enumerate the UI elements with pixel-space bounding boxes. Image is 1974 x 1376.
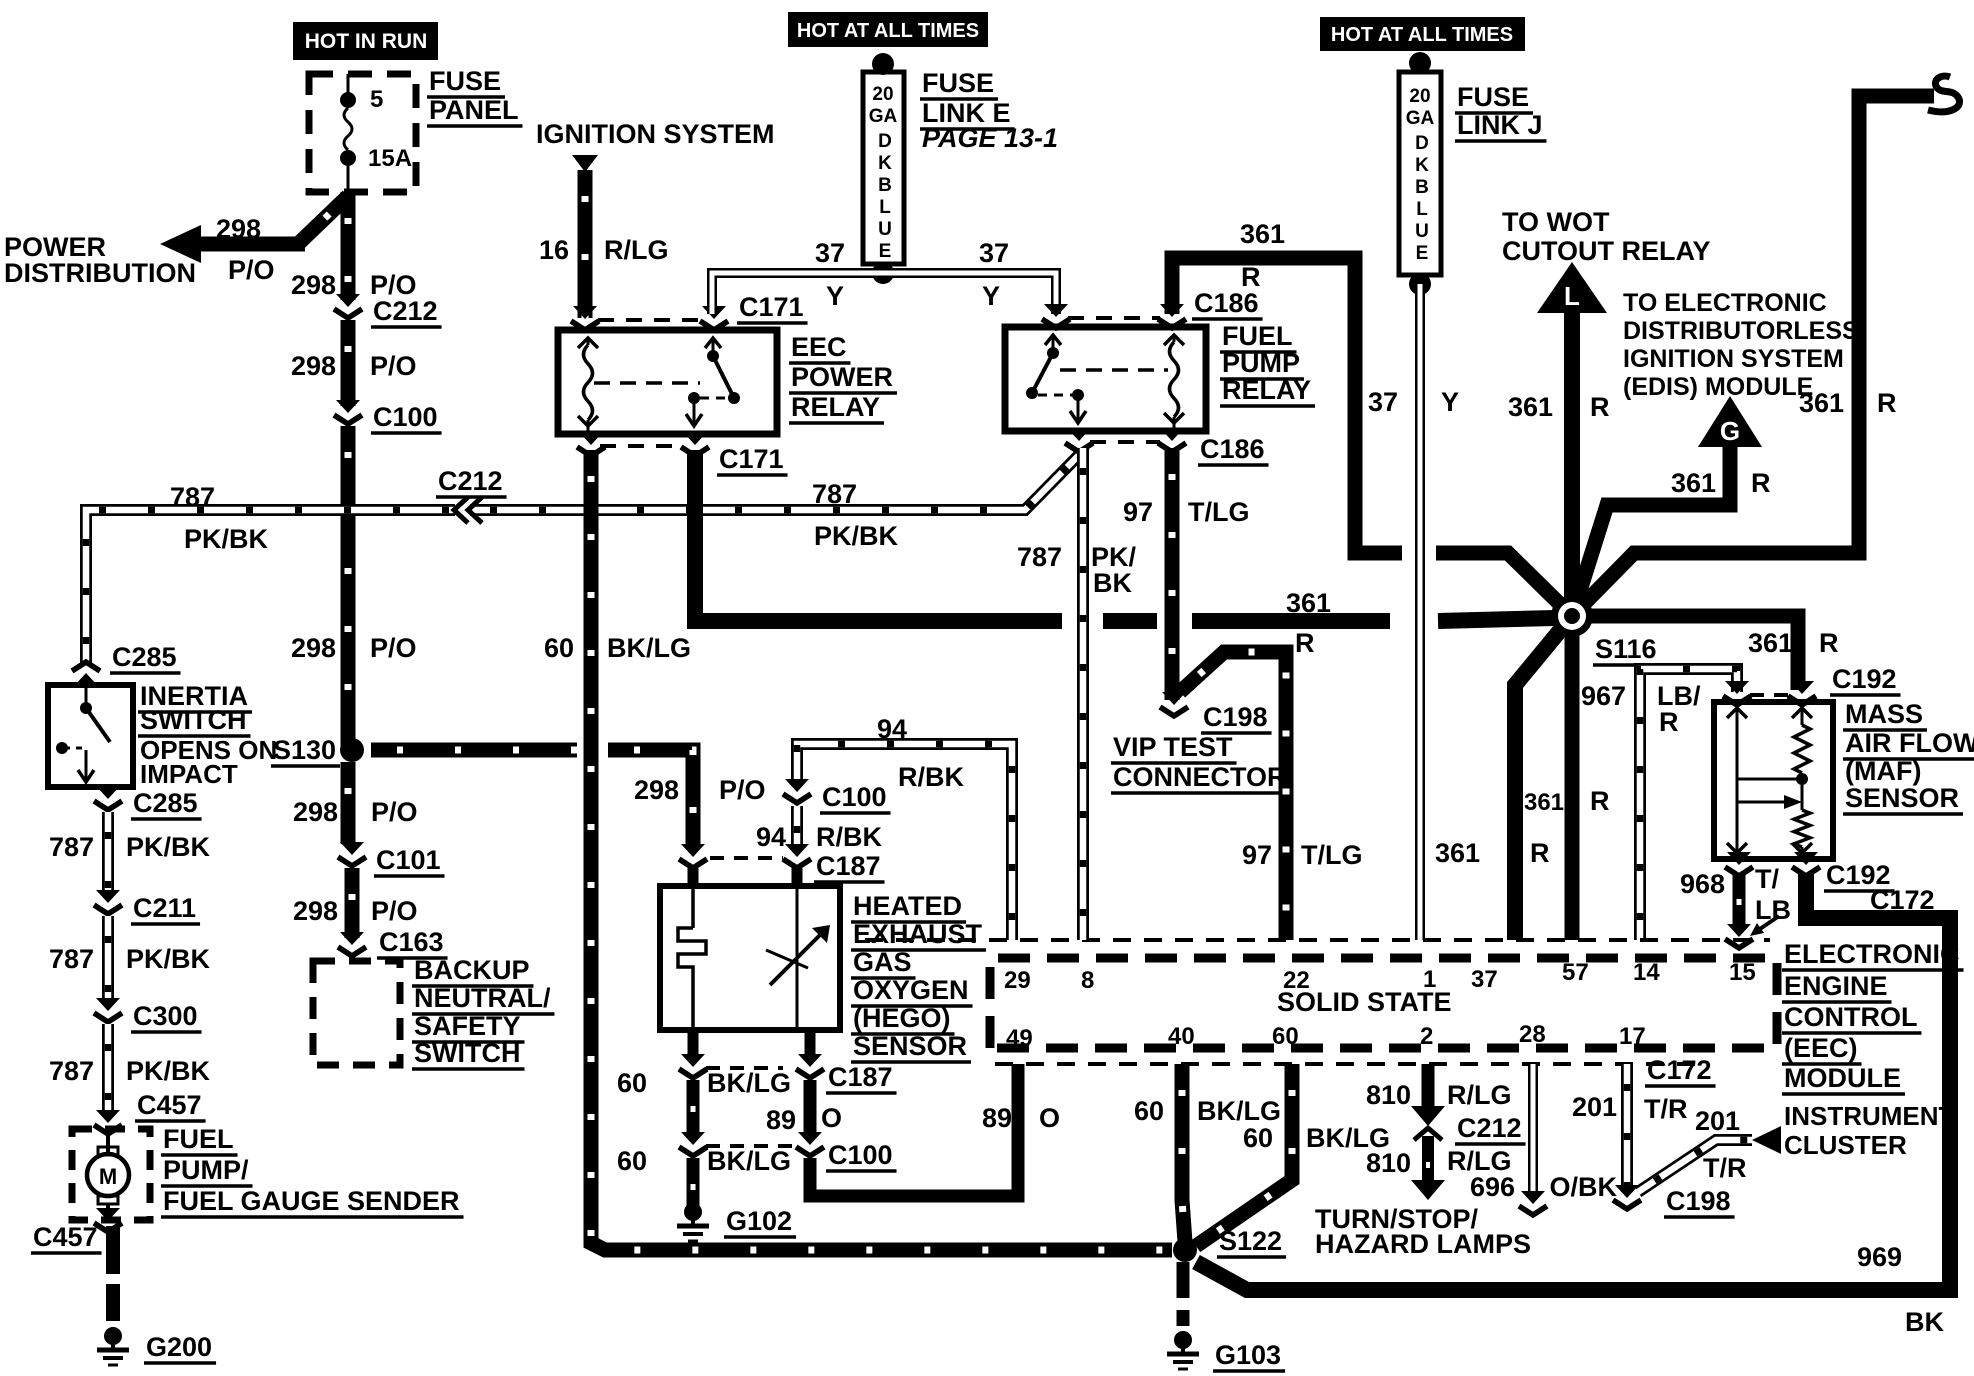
MAF sensor internals: [1727, 708, 1747, 718]
svg-text:P/O: P/O: [371, 797, 418, 827]
ignition system feed triangle: [572, 155, 598, 172]
svg-text:2: 2: [1420, 1023, 1433, 1050]
svg-text:29: 29: [1004, 967, 1031, 994]
fuse link J capsule 20 GA DK BLUE: [1399, 52, 1441, 295]
svg-text:HOT IN RUN: HOT IN RUN: [305, 30, 428, 53]
wire 16 R/LG: [578, 170, 593, 318]
svg-text:C186: C186: [1194, 288, 1259, 318]
svg-text:ELECTRONIC: ELECTRONIC: [1784, 939, 1960, 969]
wire 810 R/LG to turn stop hazard lamps: [1422, 1136, 1434, 1180]
svg-text:P/O: P/O: [719, 775, 766, 805]
svg-text:SWITCH: SWITCH: [414, 1038, 520, 1068]
inertia switch box: [48, 685, 133, 787]
svg-text:R: R: [1819, 628, 1839, 658]
svg-text:AIR FLOW: AIR FLOW: [1845, 728, 1974, 758]
svg-text:FUSE: FUSE: [1457, 82, 1529, 112]
svg-text:60: 60: [1243, 1123, 1273, 1153]
wire 298 P/O S130 to HEGO heater: [371, 743, 577, 758]
svg-text:Y: Y: [826, 281, 844, 311]
svg-text:C100: C100: [373, 402, 438, 432]
svg-text:IGNITION SYSTEM: IGNITION SYSTEM: [536, 119, 775, 149]
svg-text:CLUSTER: CLUSTER: [1784, 1130, 1907, 1160]
connector C101: [338, 842, 366, 866]
svg-text:C192: C192: [1832, 664, 1897, 694]
connector C100 left: [679, 1132, 707, 1156]
svg-text:Y: Y: [982, 281, 1000, 311]
connector C285 top: [72, 662, 100, 686]
svg-text:NEUTRAL/: NEUTRAL/: [414, 983, 551, 1013]
svg-text:CONNECTOR: CONNECTOR: [1113, 762, 1287, 792]
label 298 P/O: [291, 270, 336, 300]
svg-text:DISTRIBUTORLESS: DISTRIBUTORLESS: [1623, 317, 1859, 345]
svg-text:97: 97: [1242, 840, 1272, 870]
svg-text:P/O: P/O: [370, 633, 417, 663]
fuel pump relay internal dashed line: [1060, 368, 1168, 372]
svg-text:5: 5: [370, 86, 383, 113]
svg-text:P/O: P/O: [371, 896, 418, 926]
svg-text:MODULE: MODULE: [1784, 1063, 1901, 1093]
svg-text:T/R: T/R: [1644, 1094, 1688, 1124]
svg-text:CONTROL: CONTROL: [1784, 1002, 1917, 1032]
svg-text:GAS: GAS: [853, 947, 912, 977]
fuel pump motor M: [87, 1129, 129, 1218]
svg-text:R: R: [1241, 262, 1261, 292]
svg-text:361: 361: [1671, 468, 1716, 498]
connector C187 on 298 wire: [679, 844, 707, 868]
connector C163: [338, 932, 366, 956]
wire 298 P/O C101 to C163: [345, 868, 360, 938]
svg-text:SENSOR: SENSOR: [853, 1031, 967, 1061]
svg-text:20: 20: [1409, 86, 1430, 107]
ground G102: [677, 1203, 709, 1241]
svg-text:C212: C212: [1457, 1113, 1522, 1143]
wire 967 LB/R EEC pin 14 to MAF: [1640, 669, 1737, 940]
svg-text:298: 298: [293, 896, 338, 926]
svg-text:37: 37: [1471, 966, 1498, 993]
svg-text:C211: C211: [133, 893, 196, 923]
svg-text:ENGINE: ENGINE: [1784, 971, 1888, 1001]
svg-text:SAFETY: SAFETY: [414, 1011, 521, 1041]
svg-text:U: U: [1415, 221, 1429, 242]
svg-text:POWER: POWER: [791, 362, 893, 392]
wire 298 P/O to power distribution: [298, 196, 348, 244]
svg-text:EXHAUST: EXHAUST: [853, 919, 983, 949]
svg-text:C212: C212: [438, 466, 503, 496]
svg-text:C285: C285: [133, 788, 198, 818]
wire 969 BK MAF to S122: [1196, 873, 1950, 1290]
svg-text:R: R: [1295, 628, 1315, 658]
wire 361 R star to pin 37: [1515, 616, 1572, 940]
svg-text:T/: T/: [1755, 864, 1779, 894]
svg-text:P/O: P/O: [228, 255, 275, 285]
wire 361 R to WOT cutout relay: [1564, 313, 1580, 610]
wire 37 Y fuse link J to EEC pin 1: [1415, 284, 1425, 940]
svg-text:L: L: [879, 197, 891, 218]
wire 97 T/LG branch to EEC pin 22: [1180, 652, 1286, 940]
svg-text:VIP TEST: VIP TEST: [1113, 732, 1233, 762]
svg-text:PUMP/: PUMP/: [163, 1155, 249, 1185]
svg-text:787: 787: [170, 482, 215, 512]
svg-text:361: 361: [1435, 838, 1480, 868]
svg-text:T/LG: T/LG: [1188, 497, 1250, 527]
svg-text:HEATED: HEATED: [853, 891, 962, 921]
svg-text:PANEL: PANEL: [429, 95, 519, 125]
backup neutral safety switch dashed box: [313, 961, 400, 1065]
svg-text:C163: C163: [379, 927, 444, 957]
header label HOT IN RUN: [293, 22, 438, 60]
label TO WOT CUTOUT RELAY: [1502, 207, 1610, 237]
svg-text:49: 49: [1006, 1025, 1033, 1052]
svg-text:L: L: [1564, 281, 1580, 311]
svg-text:201: 201: [1695, 1106, 1740, 1136]
svg-text:1: 1: [1423, 966, 1436, 993]
svg-text:298: 298: [293, 797, 338, 827]
svg-text:C198: C198: [1203, 702, 1268, 732]
wire BK S122 to G103: [1177, 1262, 1190, 1326]
HEGO sensor box: [660, 886, 840, 1030]
connector C457: [94, 1110, 122, 1134]
wire 361 R star to MAF sensor: [1572, 616, 1798, 690]
svg-text:28: 28: [1519, 1021, 1546, 1048]
svg-text:IGNITION SYSTEM: IGNITION SYSTEM: [1623, 345, 1844, 373]
svg-text:15: 15: [1729, 959, 1756, 986]
svg-text:BK: BK: [1905, 1307, 1944, 1337]
wire 968 T/LB MAF to EEC pin 15: [1733, 873, 1746, 930]
EDIS module triangle G: [1698, 396, 1762, 447]
EEC power relay coil: [578, 338, 598, 348]
svg-text:57: 57: [1562, 959, 1589, 986]
svg-text:C285: C285: [112, 642, 177, 672]
svg-text:787: 787: [49, 1056, 94, 1086]
label FUSE PANEL: [427, 66, 505, 97]
wire 298 P/O S130 to C101: [341, 762, 356, 844]
label ELECTRONIC ENGINE CONTROL (EEC) MODULE: [1782, 939, 1964, 970]
connector C211: [94, 890, 122, 914]
label SOLID STATE: [1277, 987, 1452, 1017]
svg-text:787: 787: [812, 479, 857, 509]
svg-text:TO ELECTRONIC: TO ELECTRONIC: [1623, 289, 1827, 317]
svg-text:37: 37: [1368, 387, 1398, 417]
label POWER DISTRIBUTION: [4, 232, 106, 262]
wire BK to G200: [106, 1226, 120, 1321]
svg-text:CUTOUT RELAY: CUTOUT RELAY: [1502, 236, 1711, 266]
connector C192 bottom plane: [1725, 852, 1753, 876]
svg-text:R: R: [1530, 838, 1550, 868]
fuel pump relay box: [1005, 327, 1206, 431]
svg-text:361: 361: [1748, 628, 1793, 658]
svg-text:Y: Y: [1441, 387, 1459, 417]
connector C212: [334, 294, 362, 318]
svg-text:BK/LG: BK/LG: [607, 633, 691, 663]
svg-text:C457: C457: [33, 1222, 98, 1252]
svg-text:G103: G103: [1215, 1340, 1281, 1370]
svg-text:810: 810: [1366, 1080, 1411, 1110]
wire 60 BK/LG HEGO to G102: [688, 1030, 699, 1060]
svg-text:C171: C171: [739, 292, 804, 322]
wire 89 O HEGO signal to EEC pin 49: [805, 1030, 816, 1060]
arrow to POWER DISTRIBUTION: [160, 225, 201, 263]
wire 298 P/O C212 to C100: [341, 320, 356, 406]
svg-text:361: 361: [1524, 789, 1564, 816]
svg-text:60: 60: [544, 633, 574, 663]
svg-text:M: M: [99, 1164, 117, 1189]
svg-text:C300: C300: [133, 1001, 198, 1031]
svg-text:787: 787: [49, 832, 94, 862]
fuse rating labels 5 / 15A: [370, 86, 383, 113]
connector C300: [94, 998, 122, 1022]
svg-text:TO WOT: TO WOT: [1502, 207, 1610, 237]
label 298 P/O: [293, 797, 338, 827]
wire 37 Y fuse link E to fuel pump relay: [883, 273, 1056, 314]
svg-text:969: 969: [1857, 1242, 1902, 1272]
label MASS AIR FLOW (MAF) SENSOR: [1843, 699, 1927, 730]
label FUEL PUMP/FUEL GAUGE SENDER: [161, 1124, 237, 1155]
svg-text:PK/BK: PK/BK: [814, 521, 899, 551]
svg-text:696: 696: [1470, 1172, 1515, 1202]
svg-text:967: 967: [1581, 681, 1626, 711]
connector C198 on 97 wire: [1160, 692, 1188, 716]
fuel pump dashed box: [72, 1129, 150, 1220]
label FUEL PUMP RELAY: [1220, 321, 1296, 352]
label INERTIA SWITCH OPENS ON IMPACT: [138, 681, 252, 712]
svg-text:SENSOR: SENSOR: [1845, 783, 1959, 813]
svg-text:C457: C457: [137, 1090, 202, 1120]
svg-text:C100: C100: [828, 1140, 893, 1170]
svg-text:361: 361: [1799, 388, 1844, 418]
svg-text:E: E: [879, 241, 892, 262]
connector C100: [334, 400, 362, 424]
splice S122 node: [1173, 1238, 1197, 1262]
svg-text:R/LG: R/LG: [1447, 1080, 1512, 1110]
svg-text:FUEL: FUEL: [163, 1124, 234, 1154]
label FUSE LINK E PAGE 13-1: [920, 68, 998, 99]
connector C187 bottom plane: [706, 1066, 783, 1070]
svg-text:787: 787: [1017, 542, 1062, 572]
svg-text:BK/LG: BK/LG: [1197, 1096, 1281, 1126]
svg-text:B: B: [878, 175, 892, 196]
wire 201 O/BK EEC pin 28 to VIP test connector: [1528, 1064, 1538, 1198]
svg-text:8: 8: [1081, 967, 1094, 994]
wire 787 PK/BK to C300: [102, 916, 114, 1000]
svg-text:S130: S130: [273, 735, 336, 765]
connector C192 plane: [1750, 693, 1790, 697]
fuel pump relay coil: [1164, 335, 1184, 345]
svg-text:60: 60: [1134, 1096, 1164, 1126]
svg-text:60: 60: [617, 1068, 647, 1098]
EEC connector plane bottom: [995, 1062, 1700, 1066]
svg-text:22: 22: [1283, 967, 1310, 994]
svg-text:OXYGEN: OXYGEN: [853, 975, 969, 1005]
EEC module dashed border: [990, 958, 1777, 1048]
svg-text:EEC: EEC: [791, 332, 847, 362]
svg-text:(HEGO): (HEGO): [853, 1003, 951, 1033]
svg-text:(EEC): (EEC): [1784, 1033, 1858, 1063]
svg-text:PUMP: PUMP: [1222, 348, 1300, 378]
svg-text:T/R: T/R: [1703, 1153, 1747, 1183]
connector C187 on 94 wire: [783, 844, 811, 868]
svg-text:FUEL: FUEL: [1222, 321, 1293, 351]
svg-text:C100: C100: [822, 782, 887, 812]
svg-text:FUSE: FUSE: [429, 66, 501, 96]
wire 361 R top right feed: [1572, 96, 1934, 616]
svg-text:R: R: [1751, 468, 1771, 498]
wire 97 T/LG fuel pump relay to VIP test connector: [1165, 448, 1180, 700]
fuse F5 15A symbol: [340, 74, 356, 196]
svg-text:C212: C212: [373, 296, 438, 326]
svg-text:C171: C171: [719, 444, 784, 474]
svg-text:20: 20: [872, 84, 893, 105]
svg-text:C198: C198: [1666, 1186, 1731, 1216]
svg-text:R/BK: R/BK: [816, 822, 882, 852]
svg-text:FUSE: FUSE: [922, 68, 994, 98]
connector C171 bottom plane: [600, 444, 680, 448]
svg-text:16: 16: [539, 235, 569, 265]
HEGO sensing element symbol: [796, 886, 799, 1030]
svg-text:R: R: [1659, 707, 1679, 737]
connector C186 bottom plane: [1090, 440, 1160, 444]
EEC connector plane top: [865, 938, 1770, 942]
svg-text:37: 37: [979, 238, 1009, 268]
wire 361 R star to pin 57: [1565, 616, 1580, 940]
wire continuation squiggle S: [1928, 76, 1960, 112]
fuse panel dashed box: [309, 74, 416, 192]
svg-text:BK/LG: BK/LG: [707, 1068, 791, 1098]
fuse link E capsule 20 GA DK BLUE: [863, 53, 904, 284]
svg-text:LINK J: LINK J: [1457, 110, 1543, 140]
EEC pin numbers top: [1004, 967, 1031, 994]
svg-text:O/BK: O/BK: [1550, 1172, 1618, 1202]
ground G200: [97, 1327, 129, 1365]
svg-text:C187: C187: [828, 1062, 893, 1092]
splice S130: [340, 738, 364, 762]
wire 94 R/BK EEC pin 29 to HEGO: [797, 744, 1012, 940]
svg-text:298: 298: [291, 270, 336, 300]
svg-text:RELAY: RELAY: [1222, 375, 1311, 405]
svg-text:37: 37: [815, 238, 845, 268]
svg-text:R/LG: R/LG: [604, 235, 669, 265]
svg-text:B: B: [1415, 177, 1429, 198]
wire 361 R EEC relay to splice S116 horizontal: [695, 450, 1062, 621]
wire T/R EEC pin 17 to C198: [1621, 1064, 1633, 1192]
connector C186 top plane: [1068, 316, 1160, 320]
wire 298 P/O C100 to S130: [341, 426, 356, 750]
svg-text:GA: GA: [1406, 108, 1435, 129]
label EEC POWER RELAY: [789, 332, 851, 363]
svg-text:97: 97: [1123, 497, 1153, 527]
svg-text:R: R: [1590, 392, 1610, 422]
connector C100 on 94 wire: [783, 779, 811, 803]
svg-text:PAGE 13-1: PAGE 13-1: [922, 123, 1058, 153]
wire 787 PK/BK fuel pump relay to EEC pin 8: [1077, 448, 1089, 940]
svg-text:787: 787: [49, 944, 94, 974]
svg-text:298: 298: [216, 214, 261, 244]
wire 60 BK/LG EEC pin 60 to S122: [1196, 1064, 1292, 1246]
wire 361 R EDIS to splice S116: [1572, 447, 1730, 616]
svg-text:361: 361: [1508, 392, 1553, 422]
svg-text:GA: GA: [869, 106, 898, 127]
svg-text:INSTRUMENT: INSTRUMENT: [1784, 1101, 1955, 1131]
svg-text:C172: C172: [1647, 1055, 1712, 1085]
svg-text:HOT AT ALL TIMES: HOT AT ALL TIMES: [1331, 24, 1513, 46]
wire 810 R/LG EEC pin 2 to C212: [1422, 1064, 1435, 1106]
wire 787 PK/BK to C211: [102, 812, 114, 892]
svg-text:O: O: [1039, 1103, 1060, 1133]
wire 37 Y fuse link E to EEC power relay: [712, 273, 883, 314]
svg-text:R: R: [1877, 388, 1897, 418]
wire 201 T/R to instrument cluster: [1638, 1140, 1752, 1192]
svg-text:60: 60: [617, 1146, 647, 1176]
svg-text:K: K: [878, 153, 892, 174]
label 298 P/O: [291, 633, 336, 663]
svg-text:201: 201: [1572, 1092, 1617, 1122]
svg-text:14: 14: [1633, 959, 1660, 986]
svg-text:U: U: [878, 219, 892, 240]
connector C457 bottom: [94, 1208, 122, 1232]
svg-text:968: 968: [1680, 869, 1725, 899]
header label HOT AT ALL TIMES right: [1320, 17, 1525, 51]
svg-text:361: 361: [1240, 219, 1285, 249]
ground G103: [1167, 1331, 1199, 1369]
svg-text:298: 298: [634, 775, 679, 805]
HEGO heater element symbol: [678, 886, 706, 1030]
svg-text:60: 60: [1272, 1023, 1299, 1050]
svg-text:G: G: [1720, 416, 1740, 446]
wire 298 P/O fuse panel to C212: [341, 192, 356, 300]
label 787 PK/BK left: [170, 482, 215, 512]
svg-text:810: 810: [1366, 1148, 1411, 1178]
svg-text:RELAY: RELAY: [791, 392, 880, 422]
svg-text:298: 298: [291, 351, 336, 381]
fuel pump relay switch: [1026, 335, 1086, 423]
label INSTRUMENT CLUSTER: [1784, 1101, 1955, 1131]
svg-text:E: E: [1416, 243, 1429, 264]
svg-text:D: D: [1415, 133, 1429, 154]
svg-text:DISTRIBUTION: DISTRIBUTION: [4, 258, 196, 288]
inline connector C212 on 787 wire: [454, 497, 482, 523]
svg-text:L: L: [1416, 199, 1428, 220]
label VIP TEST CONNECTOR: [1111, 732, 1237, 763]
instrument cluster triangle: [1752, 1126, 1781, 1154]
label HEATED EXHAUST GAS OXYGEN (HEGO) SENSOR: [851, 891, 966, 922]
svg-text:(EDIS) MODULE: (EDIS) MODULE: [1623, 373, 1813, 401]
wire 60 BK/LG EEC pin 40 to S122: [1182, 1064, 1185, 1242]
label TURN/STOP/HAZARD LAMPS: [1315, 1204, 1479, 1234]
svg-text:C187: C187: [816, 851, 881, 881]
svg-text:40: 40: [1168, 1023, 1195, 1050]
label 787 PK/BK middle: [812, 479, 857, 509]
svg-text:G102: G102: [726, 1206, 792, 1236]
svg-text:PK/BK: PK/BK: [184, 524, 269, 554]
svg-text:O: O: [821, 1103, 842, 1133]
splice S116 node: [1551, 595, 1593, 637]
op EEC power relay box: [558, 330, 777, 434]
label IGNITION SYSTEM: [536, 119, 775, 149]
EEC pin numbers bottom: [1006, 1025, 1033, 1052]
svg-text:PK/BK: PK/BK: [126, 1056, 211, 1086]
svg-text:R: R: [1590, 786, 1610, 816]
svg-text:94: 94: [877, 714, 907, 744]
svg-text:BK/LG: BK/LG: [707, 1146, 791, 1176]
svg-text:BK: BK: [1093, 568, 1132, 598]
label TO ELECTRONIC DISTRIBUTORLESS IGNITION SYSTEM (EDIS) MODULE: [1623, 289, 1827, 317]
svg-text:G200: G200: [146, 1332, 212, 1362]
label BACKUP NEUTRAL/SAFETY SWITCH: [412, 955, 534, 986]
svg-text:PK/BK: PK/BK: [126, 832, 211, 862]
label 298 P/O: [293, 896, 338, 926]
svg-text:361: 361: [1286, 588, 1331, 618]
svg-text:D: D: [878, 131, 892, 152]
svg-text:K: K: [1415, 155, 1429, 176]
